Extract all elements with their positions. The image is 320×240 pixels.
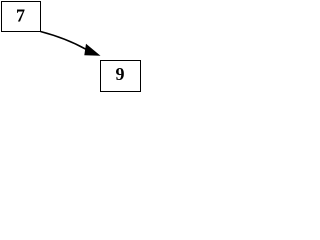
node box 9 [100, 60, 141, 92]
arrowhead [84, 44, 100, 56]
svg-text:9: 9 [116, 64, 125, 84]
wire edge 7 to 9 [41, 32, 87, 50]
node box 7 [1, 1, 41, 32]
svg-text:7: 7 [16, 6, 25, 26]
background [0, 0, 143, 93]
